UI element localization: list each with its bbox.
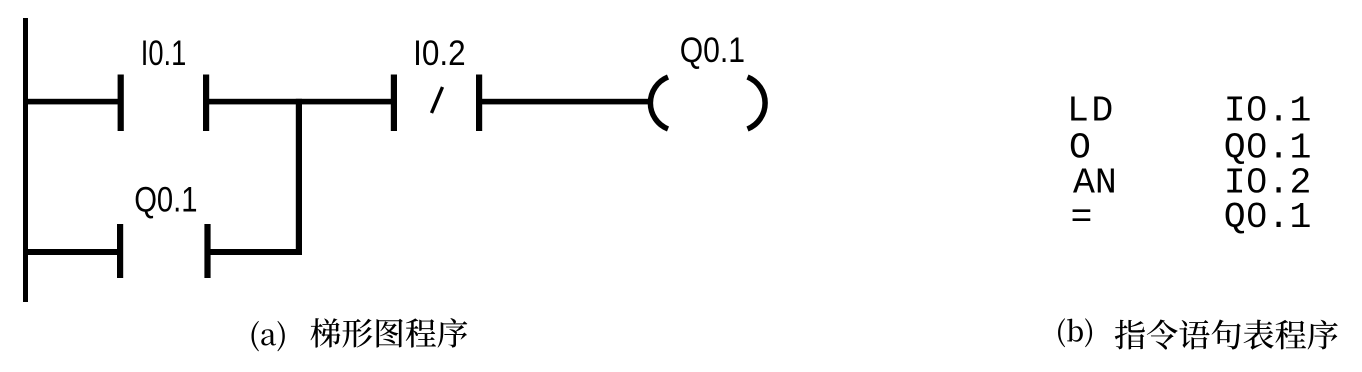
caption (a) marker: [251, 321, 284, 351]
contact I0.1 right bar: [203, 75, 209, 132]
caption (b) text: instruction statement list program: [1115, 319, 1338, 349]
svg-text:Q0.1: Q0.1: [680, 30, 745, 70]
contact I0.2 right bar: [476, 75, 482, 132]
left power rail: [23, 18, 28, 302]
contact I0.1 left bar: [118, 75, 124, 132]
svg-text:I0.1: I0.1: [141, 34, 187, 73]
svg-text:LD: LD: [1067, 91, 1116, 132]
coil Q0.1 right parenthesis: [748, 77, 766, 129]
caption (b) marker: [1058, 318, 1092, 347]
wire: contact I0.2 to coil Q0.1: [479, 99, 651, 105]
svg-text:I0.2: I0.2: [413, 35, 466, 74]
wire: rail to contact I0.1 (top rung): [23, 99, 121, 105]
svg-text:Q0.1: Q0.1: [1224, 197, 1312, 238]
svg-text:Q0.1: Q0.1: [134, 180, 197, 219]
contact I0.2 slash (normally closed): [432, 87, 443, 113]
coil Q0.1 left parenthesis: [650, 77, 668, 129]
contact Q0.1 right bar: [204, 224, 210, 278]
svg-text:=: =: [1071, 197, 1093, 238]
wire: contact I0.1 to contact I0.2 through junction node: [206, 99, 397, 105]
wire: contact Q0.1 to junction node: [208, 249, 303, 255]
junction node vertical wire: [296, 99, 302, 255]
svg-text:I0.1: I0.1: [1224, 91, 1312, 132]
contact I0.2 left bar: [391, 75, 397, 132]
zero glyph dot masks (plain-zero style of operand digits): [1253, 105, 1261, 113]
wire: rail to contact Q0.1 (bottom rung): [23, 249, 123, 255]
contact Q0.1 left bar: [117, 224, 123, 278]
caption (a) text: ladder diagram program: [311, 318, 468, 348]
